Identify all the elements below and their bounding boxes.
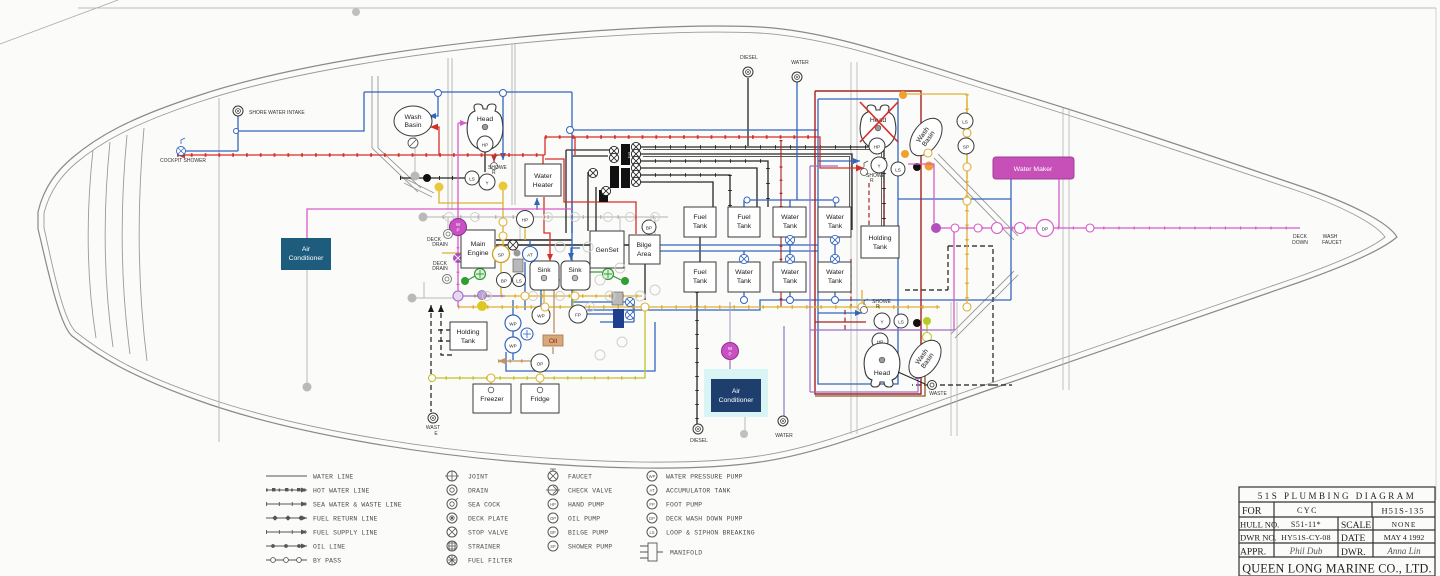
svg-text:LS: LS <box>649 530 654 535</box>
wire: AT riser <box>525 240 530 310</box>
wire: manifold feed horizontals <box>566 150 610 156</box>
node: red X over head TR <box>860 102 898 142</box>
svg-text:WAST: WAST <box>426 425 440 431</box>
wire: oil genset stub <box>549 279 560 281</box>
component: Fuel Tank 3 <box>684 262 716 292</box>
wire: holding tank L vent dashed 1 <box>430 305 432 412</box>
node: smudge dot top <box>352 8 360 16</box>
svg-text:Engine: Engine <box>467 250 488 257</box>
component: WP pressure pump magenta TL <box>450 219 467 236</box>
component: fuel manifold block 1 <box>621 144 632 165</box>
svg-text:Conditioner: Conditioner <box>289 255 324 262</box>
svg-text:Water: Water <box>781 214 800 221</box>
component: LS TR <box>957 113 973 129</box>
svg-text:SHOWER PUMP: SHOWER PUMP <box>568 544 612 551</box>
wire: cockpit shower feed <box>184 150 238 152</box>
node: drain outlet dot <box>303 383 312 392</box>
wire: bypass trunk y217 <box>425 216 668 218</box>
svg-text:Water: Water <box>781 269 800 276</box>
node: black dot near LS TL <box>423 174 431 182</box>
svg-text:SP: SP <box>963 145 969 150</box>
svg-text:QUEEN LONG MARINE CO., LTD.: QUEEN LONG MARINE CO., LTD. <box>1242 562 1431 576</box>
svg-text:CYC: CYC <box>1297 506 1318 515</box>
component: Oil reservoir <box>543 335 563 346</box>
legend line samples column 1 <box>266 476 307 560</box>
wire: gold trunk y307 <box>458 306 940 308</box>
wire: blue drop shower TL <box>502 92 504 160</box>
svg-text:OP: OP <box>550 516 556 521</box>
component: Air Conditioner right <box>704 369 768 417</box>
svg-text:Tank: Tank <box>828 223 843 230</box>
svg-text:Fuel: Fuel <box>737 214 751 221</box>
wire: shore intake drop <box>237 113 239 151</box>
component: fuel manifold block 2 <box>610 166 619 188</box>
component: Fuel Tank 1 <box>684 207 716 237</box>
wire: dashed right inner <box>905 246 948 290</box>
component: hand pump HP BR <box>872 333 888 349</box>
wire: gold stub over holding R <box>861 290 863 307</box>
svg-text:DOWN: DOWN <box>1292 240 1308 246</box>
scan sheet corner diagonal <box>0 0 118 44</box>
node: purple dot on deck wash line <box>931 223 941 233</box>
svg-text:Water: Water <box>826 269 845 276</box>
svg-text:DIESEL: DIESEL <box>740 55 758 61</box>
svg-text:Phil Dub: Phil Dub <box>1289 546 1323 556</box>
wire: fuel line fan 4 <box>640 168 757 207</box>
legend hot water squares <box>272 488 300 491</box>
svg-text:Y: Y <box>485 181 488 186</box>
svg-text:HP: HP <box>482 143 488 148</box>
wire: fuel line fan 6 <box>640 182 713 207</box>
svg-text:LS: LS <box>516 279 522 284</box>
svg-text:Holding: Holding <box>456 329 479 336</box>
scan sheet border top <box>78 7 1436 9</box>
svg-text:Air: Air <box>302 246 311 253</box>
svg-text:HULL NO.: HULL NO. <box>1240 520 1279 530</box>
svg-text:Freezer: Freezer <box>480 396 504 403</box>
svg-text:BP: BP <box>501 279 507 284</box>
wire: sink R lime drop <box>572 290 574 307</box>
svg-text:WATER LINE: WATER LINE <box>313 474 353 481</box>
svg-text:LS: LS <box>962 120 968 125</box>
wire: AC-left condensate drain <box>306 270 308 383</box>
component: Bilge Area <box>629 235 660 264</box>
wire: gold row y296 <box>474 295 642 297</box>
component: Fridge <box>521 384 559 413</box>
wire: shower hot drop <box>493 155 495 162</box>
node: bypass end blob <box>419 213 428 222</box>
svg-text:Tank: Tank <box>693 223 708 230</box>
svg-text:LS: LS <box>895 168 901 173</box>
svg-text:FAUCET: FAUCET <box>568 474 592 481</box>
wire: fuel line fan 2 <box>640 154 852 230</box>
svg-text:WP: WP <box>537 314 544 319</box>
component: hand pump HP TL <box>477 136 493 152</box>
cockpit coaming diagonal <box>372 148 421 192</box>
symbol: cockpit shower outlet <box>177 138 186 156</box>
wire: fuel line fan 1 <box>640 147 884 230</box>
wire: oil box drop <box>552 347 554 354</box>
component: navy manifold block <box>613 309 624 328</box>
symbol: waste deck plate right <box>928 381 937 390</box>
wire: fuel line fan 3 <box>640 161 768 207</box>
valve: manifold column <box>508 142 641 250</box>
svg-text:Bilge: Bilge <box>636 242 651 249</box>
svg-text:DRAIN: DRAIN <box>432 242 448 248</box>
component: Y valve TR <box>871 157 887 173</box>
svg-text:NONE: NONE <box>1392 520 1417 529</box>
component: Sink L <box>530 261 559 290</box>
svg-text:SHOWE: SHOWE <box>872 299 892 305</box>
title block frame <box>1239 487 1435 576</box>
legend fuel return diamonds <box>272 515 304 520</box>
wire: purple riser x810 <box>809 166 811 392</box>
svg-text:FOOT PUMP: FOOT PUMP <box>666 502 702 509</box>
svg-text:Tank: Tank <box>461 338 476 345</box>
svg-text:Tank: Tank <box>737 278 752 285</box>
wire: holding tank L vent dashed 2 <box>441 305 452 355</box>
svg-text:Fuel: Fuel <box>693 214 707 221</box>
svg-text:MANIFOLD: MANIFOLD <box>670 550 702 557</box>
wire: gold U near engine <box>439 188 503 203</box>
component: Water Maker <box>993 157 1074 179</box>
bulkhead line x219 <box>218 98 220 442</box>
wire: lime into basin BR <box>926 325 928 352</box>
wire: oil line to OP <box>498 360 531 362</box>
svg-text:DECK PLATE: DECK PLATE <box>468 516 508 523</box>
svg-text:Water: Water <box>534 173 553 180</box>
wire: WP riser TL <box>457 123 459 219</box>
component: WP blue 1 <box>505 315 521 331</box>
wire: diesel fill top <box>747 78 749 146</box>
svg-text:SP: SP <box>498 253 504 258</box>
svg-text:Fridge: Fridge <box>530 396 549 403</box>
wire: water maker pink drop <box>1058 177 1060 228</box>
node: pink arrowheads <box>304 246 310 253</box>
wire: water fill top <box>796 82 798 200</box>
wire: sink drain loop <box>573 302 634 322</box>
node: lime dot <box>923 317 931 325</box>
svg-text:AT: AT <box>649 488 654 493</box>
bulkhead double vertical x512 <box>512 44 515 205</box>
component: Water Tank 5 <box>818 262 851 292</box>
svg-text:DP: DP <box>649 516 655 521</box>
component: Water Heater <box>525 164 561 196</box>
svg-text:R: R <box>492 170 496 176</box>
component: strainer blue small <box>521 328 533 340</box>
svg-text:STRAINER: STRAINER <box>468 544 500 551</box>
node: gray dot SP right <box>514 250 521 257</box>
svg-text:WATER: WATER <box>775 433 793 439</box>
wire: purple wp-right drop <box>729 360 731 379</box>
component: Air Conditioner left <box>281 238 331 270</box>
svg-text:Water: Water <box>735 269 754 276</box>
component: DP deck wash pump <box>1037 220 1054 237</box>
svg-text:Holding: Holding <box>868 235 891 242</box>
wire: AC-left feed <box>307 209 572 253</box>
wire: hot to washbasin TL <box>430 127 439 155</box>
component: Main Engine <box>461 230 495 268</box>
cockpit bench diagonal <box>404 179 434 197</box>
svg-text:BP: BP <box>646 226 652 231</box>
svg-text:COCKPIT SHOWER: COCKPIT SHOWER <box>160 158 206 164</box>
component: Wash Basin TL <box>394 106 432 136</box>
component: LS mid <box>513 274 526 287</box>
node: purple deck drain dot <box>453 253 463 263</box>
node: green ring valve R <box>603 269 614 280</box>
component: Freezer <box>473 384 511 413</box>
component: HP hand pump mid <box>517 211 534 228</box>
wire: engine black line <box>496 240 640 245</box>
wire: deck wash main <box>936 227 1300 229</box>
legend symbols column 2 <box>447 471 457 565</box>
svg-text:SEA COCK: SEA COCK <box>468 502 500 509</box>
node: yellow big dot <box>477 301 487 311</box>
stern step arc 1 <box>88 150 96 338</box>
symbol: water deck plate top <box>792 72 802 82</box>
bulkhead double vertical x1063 <box>1063 108 1069 390</box>
svg-text:DP: DP <box>1042 227 1048 232</box>
svg-text:Basin: Basin <box>404 122 421 129</box>
svg-text:Heater: Heater <box>533 182 554 189</box>
svg-text:51S PLUMBING DIAGRAM: 51S PLUMBING DIAGRAM <box>1258 491 1417 501</box>
wire: AC-right drain <box>744 412 746 431</box>
component: hand pump HP TR <box>869 138 885 154</box>
node: pink ring joints <box>951 223 1094 234</box>
svg-text:SCALE: SCALE <box>1341 521 1371 531</box>
svg-text:FOR: FOR <box>1242 506 1262 517</box>
symbol: shower head TR <box>861 161 869 176</box>
component: Holding Tank L <box>450 322 487 350</box>
component: SP shower pump <box>493 246 510 263</box>
wire: water fill purple riser <box>783 326 785 416</box>
wire: OP drop <box>539 373 541 378</box>
wire: gold top right <box>903 93 967 95</box>
svg-text:Fuel: Fuel <box>693 269 707 276</box>
component: Head TR crossed out <box>860 105 896 149</box>
wire: gold engine-side riser <box>442 252 493 254</box>
svg-text:WP: WP <box>509 322 516 327</box>
node: black dot right head BR <box>913 319 921 327</box>
legend sample arrowheads <box>301 488 307 549</box>
wire: gold LS SP drop <box>966 99 968 178</box>
svg-text:DRAIN: DRAIN <box>468 488 488 495</box>
node: blue arrowheads <box>429 113 436 119</box>
wire: gold SP drop <box>500 262 502 296</box>
svg-text:Sink: Sink <box>537 267 551 274</box>
wire: maroon riser x781 <box>780 140 782 307</box>
v-berth diagonal upper <box>934 154 1018 240</box>
legend symbols column 4 <box>647 471 657 537</box>
svg-text:Fuel: Fuel <box>628 152 632 158</box>
component: Water Tank 1 <box>773 207 806 237</box>
svg-text:FUEL FILTER: FUEL FILTER <box>468 558 512 565</box>
component: OP oil pump <box>531 354 549 372</box>
symbol: shore water intake plate <box>233 106 243 116</box>
wire: tank riser 835 <box>834 237 836 300</box>
node: smudge dot bottom right <box>740 430 748 438</box>
wire: genset feed verticals <box>588 172 596 231</box>
svg-text:FUEL SUPPLY LINE: FUEL SUPPLY LINE <box>313 530 378 537</box>
hull outer outline <box>38 26 1397 468</box>
bulkhead double vertical x448 <box>448 58 452 210</box>
wire: WP arrow to head <box>458 122 467 124</box>
wire: dashed loop right <box>912 246 1012 385</box>
svg-text:SHOWE: SHOWE <box>866 173 886 179</box>
symbol: diesel deck plate bottom <box>693 424 703 434</box>
svg-text:Sink: Sink <box>568 267 582 274</box>
node: black dot right head TR <box>913 163 921 171</box>
wire: blue tank trunk <box>572 300 1011 310</box>
wire: blue mid trunk y130 <box>571 92 573 310</box>
wire: purple near sinks <box>458 295 505 297</box>
svg-text:Tank: Tank <box>737 223 752 230</box>
svg-text:Water Maker: Water Maker <box>1014 166 1053 173</box>
wire: purple y-ls link BR <box>890 329 927 331</box>
wire: tank riser 790 <box>789 237 791 300</box>
svg-text:FP: FP <box>575 313 581 318</box>
node: blue joint circle <box>567 127 574 134</box>
node: gold dots <box>435 183 444 192</box>
wire: sink L gold drop <box>543 290 545 307</box>
svg-text:R: R <box>870 178 874 184</box>
svg-text:HOT WATER LINE: HOT WATER LINE <box>313 488 370 495</box>
svg-text:Tank: Tank <box>693 278 708 285</box>
wire: heater bottom run to sinks <box>544 137 575 261</box>
bulkhead pair x951 <box>951 302 957 436</box>
svg-text:STOP VALVE: STOP VALVE <box>468 530 508 537</box>
component: Head TL <box>467 104 503 150</box>
wire: gold hp feed <box>524 227 526 240</box>
svg-text:H51S-135: H51S-135 <box>1382 506 1425 516</box>
component: LS TR mid <box>891 162 905 176</box>
svg-text:Oil: Oil <box>549 338 558 345</box>
wire: diesel fill bottom <box>696 292 698 424</box>
svg-text:Main: Main <box>471 241 486 248</box>
component: Water Tank 3 <box>728 262 760 292</box>
svg-text:DWR.: DWR. <box>1341 548 1366 558</box>
svg-text:Conditioner: Conditioner <box>719 397 754 404</box>
wire: blue trunk y245 <box>640 244 818 246</box>
svg-text:WP: WP <box>649 474 656 479</box>
svg-text:W: W <box>728 346 733 351</box>
symbol: shower head BR <box>861 299 869 314</box>
node: red arrowheads <box>177 152 185 159</box>
wire: water maker blue feed <box>898 177 1011 300</box>
svg-text:ACCUMULATOR TANK: ACCUMULATOR TANK <box>666 488 731 495</box>
component: LS TL <box>465 171 479 185</box>
wire: maroon dashed to holding tank R <box>815 183 884 330</box>
wire: hot water square ticks <box>177 153 545 157</box>
component: GenSet <box>590 231 624 268</box>
svg-text:S51-11*: S51-11* <box>1291 520 1321 529</box>
wire: gold drop to SP <box>502 203 504 245</box>
symbol: deck drain 2 <box>443 275 452 284</box>
legend oil dots <box>271 544 301 548</box>
svg-text:FP: FP <box>649 502 655 507</box>
component: BP bilge pump <box>497 273 512 288</box>
wire: blue arrow to head BR <box>818 312 862 314</box>
svg-text:OIL PUMP: OIL PUMP <box>568 516 600 523</box>
wire: blue trunk y251 <box>650 250 818 252</box>
svg-text:FAUCET: FAUCET <box>1322 240 1342 246</box>
component: fuel manifold block 4 <box>599 190 608 202</box>
svg-text:WASTE: WASTE <box>929 391 947 397</box>
wire: basin TL drain gray <box>414 135 416 172</box>
wire: blue drop washbasin TL <box>429 92 438 116</box>
svg-text:GenSet: GenSet <box>595 247 618 254</box>
scan sheet right edge <box>1435 8 1437 500</box>
wire: tank riser 744 <box>743 251 745 300</box>
wire: head TL drain <box>484 152 486 172</box>
svg-text:SHORE WATER INTAKE: SHORE WATER INTAKE <box>249 110 305 116</box>
component: fuel manifold block 3 <box>621 168 630 188</box>
component: WP purple right <box>722 343 739 360</box>
component: Water Tank 2 <box>818 207 851 237</box>
wire: purple basin return <box>810 374 918 392</box>
component: Sink R <box>561 261 590 290</box>
wire: pink riser x954 <box>953 228 955 330</box>
svg-text:JOINT: JOINT <box>468 474 488 481</box>
bulkhead double vertical x851 <box>851 62 857 434</box>
node: green dot R <box>621 277 629 285</box>
node: blue rings y300 <box>741 197 840 304</box>
svg-text:P: P <box>456 228 459 233</box>
stern step arc 3 <box>122 135 130 354</box>
symbol: water deck plate bottom <box>778 416 788 426</box>
svg-text:Anna Lin: Anna Lin <box>1386 546 1421 556</box>
symbol: shower head TL <box>491 155 499 170</box>
symbol: diesel deck plate top <box>743 67 753 77</box>
svg-text:BP: BP <box>550 530 556 535</box>
component: Y valve TL <box>479 174 495 190</box>
wire: bilge area drain <box>644 264 646 300</box>
svg-text:Tank: Tank <box>783 223 798 230</box>
wire: green link genset <box>613 276 621 280</box>
component: BP bilge pump genset <box>642 220 656 234</box>
node: purple ring joint <box>453 291 463 301</box>
wire: manifold feed left vertical pair <box>566 150 572 233</box>
node: green ring valve L <box>475 269 486 280</box>
wire: WP right riser gray <box>729 302 731 343</box>
component: filter box gray 2 <box>612 292 623 305</box>
stern step arc 2 <box>105 142 113 347</box>
wire: sink R blue feed <box>571 248 580 260</box>
stern step arc 4 <box>139 128 147 361</box>
component: LS BR <box>894 314 908 328</box>
wire: blue to navy manifold <box>587 314 634 322</box>
svg-text:Area: Area <box>637 251 652 258</box>
component: WP blue big <box>532 306 550 324</box>
wire: gray drop from bypass to sinks <box>520 217 655 240</box>
svg-text:HP: HP <box>550 502 556 507</box>
wire: head BR waste link <box>898 372 925 384</box>
wire: hot water main <box>177 154 545 156</box>
svg-text:DWR NO.: DWR NO. <box>1240 533 1277 543</box>
wire: purple top stub <box>810 165 838 167</box>
svg-text:Tank: Tank <box>783 278 798 285</box>
svg-text:HP: HP <box>874 145 880 150</box>
wire: gray joint row near engine <box>447 217 449 235</box>
wire: purple bottom trunk <box>810 329 954 331</box>
cockpit coaming double vertical x372 <box>372 76 378 148</box>
wire: blue top trunk <box>364 91 572 93</box>
component: AT accumulator <box>523 247 538 262</box>
component: Head BR <box>864 343 900 387</box>
component: Fuel Tank 2 <box>728 207 760 237</box>
wire: freezer fridge supply <box>432 307 645 378</box>
svg-text:R: R <box>876 304 880 310</box>
